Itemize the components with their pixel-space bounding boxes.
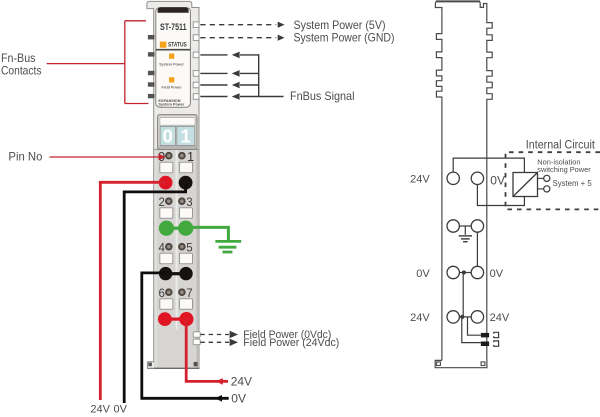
wire terminal B to converter xyxy=(477,185,524,206)
black field 0V wire xyxy=(142,273,229,398)
wire terminal 3 (green) xyxy=(178,221,193,236)
field power tab 24V xyxy=(193,339,200,345)
junction dot row3 xyxy=(462,270,466,274)
panel dark header xyxy=(158,7,189,13)
svg-text:Field Power (24Vdc): Field Power (24Vdc) xyxy=(243,337,339,349)
pin dot 6 xyxy=(165,288,173,296)
terminal slot 3 xyxy=(180,208,193,218)
terminal slot 1 xyxy=(180,162,193,172)
FnBus signal line 2 xyxy=(200,72,227,74)
drop wire to field contact 2 xyxy=(462,319,481,343)
terminal circle G (24V) xyxy=(447,311,459,323)
right edge slot 5 xyxy=(193,82,199,88)
Field Power LED square xyxy=(169,77,174,82)
terminal circle D xyxy=(471,220,483,232)
svg-text:24V: 24V xyxy=(90,403,110,415)
wire terminal 1 (black) xyxy=(179,176,193,190)
address digit 1 xyxy=(177,126,195,145)
svg-text:switching Power: switching Power xyxy=(537,165,591,174)
black jumper bar xyxy=(166,272,186,275)
FnBus contact 4 xyxy=(148,82,155,86)
svg-text:Pin No: Pin No xyxy=(8,150,42,164)
mating contact 2 xyxy=(494,341,499,346)
svg-text:24V: 24V xyxy=(410,174,430,186)
Field Power 0Vdc dashed arrow xyxy=(200,334,229,336)
svg-text:Internal Circuit: Internal Circuit xyxy=(526,139,596,151)
FnBus signal line 3 xyxy=(200,84,227,86)
FnBus contact 5 xyxy=(148,94,155,98)
pin dot 3 xyxy=(178,197,186,205)
System Power GND dashed arrow xyxy=(200,37,276,39)
green earth wire xyxy=(186,227,229,240)
FnBus contact 3 xyxy=(148,71,155,75)
terminal circle H (24V) xyxy=(471,311,483,323)
wire terminal 4 (black) xyxy=(159,267,172,280)
svg-text:3: 3 xyxy=(186,197,192,209)
terminal slot 0 xyxy=(160,162,173,172)
svg-text:24V: 24V xyxy=(231,375,252,389)
right edge slot 4 xyxy=(193,71,199,77)
svg-text:0: 0 xyxy=(163,126,173,147)
pin dot 4 xyxy=(165,243,173,251)
wire terminal 6 (red) xyxy=(158,312,172,326)
panel separator line xyxy=(156,49,190,51)
FnBus bus bar xyxy=(258,54,260,97)
terminal strip background xyxy=(154,149,198,367)
FnBus signal line 4 xyxy=(200,96,227,98)
wire terminal C-D with earth xyxy=(459,225,472,227)
red jumper bar xyxy=(166,318,187,321)
wire row3 with junction xyxy=(459,272,471,274)
svg-text:Contacts: Contacts xyxy=(1,63,42,77)
svg-text:6: 6 xyxy=(158,288,164,300)
svg-text:0V: 0V xyxy=(416,268,430,280)
terminal circle E (0V) xyxy=(447,266,459,278)
internal circuit dashed box xyxy=(506,152,600,209)
svg-text:24V: 24V xyxy=(410,312,430,324)
pin dot 0 xyxy=(165,152,173,160)
pin dot 5 xyxy=(178,243,186,251)
Pin No arrow (red) xyxy=(50,156,160,158)
svg-text:1: 1 xyxy=(187,149,194,164)
svg-text:ST-7511: ST-7511 xyxy=(160,22,187,32)
field contact 1 (black) xyxy=(481,333,489,338)
side profile outline xyxy=(435,1,492,367)
green jumper bar xyxy=(166,227,186,230)
right edge slot 3 xyxy=(193,52,199,58)
svg-text:STATUS: STATUS xyxy=(168,42,187,48)
wire terminal 2 (green) xyxy=(159,221,174,236)
pin dot 1 xyxy=(178,152,186,160)
svg-text:0V: 0V xyxy=(490,174,505,188)
pin dot 7 xyxy=(178,288,186,296)
right edge slot 2 xyxy=(193,35,199,41)
svg-text:FnBus Signal: FnBus Signal xyxy=(290,89,355,103)
svg-text:System Power: System Power xyxy=(159,62,184,66)
converter output pins xyxy=(538,177,544,179)
STATUS LED square xyxy=(160,42,167,48)
svg-text:System Power: System Power xyxy=(158,103,184,107)
svg-text:Field Power: Field Power xyxy=(162,86,183,90)
profile foot marks xyxy=(437,362,441,366)
svg-text:7: 7 xyxy=(186,288,192,300)
right edge slot 1 xyxy=(193,22,199,28)
wire D to E row xyxy=(476,232,478,266)
svg-text:0V: 0V xyxy=(113,403,127,415)
terminal slot 4 xyxy=(160,253,173,263)
red 24V supply wire xyxy=(100,182,165,400)
svg-text:0V: 0V xyxy=(490,268,504,280)
red field 24V wire xyxy=(186,319,228,381)
right edge slot 6 xyxy=(193,94,199,100)
svg-text:0V: 0V xyxy=(231,391,246,405)
System Power LED square xyxy=(169,54,174,59)
field power tab 0V xyxy=(193,332,200,338)
wire terminal 7 (red) xyxy=(179,312,193,326)
svg-text:System + 5: System + 5 xyxy=(553,179,593,188)
module left foot xyxy=(147,362,154,369)
FnBus contact 1 (left edge) xyxy=(148,35,155,39)
Fn-Bus bracket (red) xyxy=(47,21,149,104)
svg-text:2: 2 xyxy=(158,197,164,209)
module right foot mark xyxy=(194,362,198,366)
System Power 5V dashed arrow xyxy=(200,24,276,26)
field contact 2 (black) xyxy=(481,342,489,347)
terminal circle F (0V) xyxy=(471,266,483,278)
Field Power 24Vdc dashed arrow xyxy=(200,341,229,343)
svg-text:4: 4 xyxy=(158,243,165,255)
junction dot row4 xyxy=(460,315,464,319)
terminal slot 7 xyxy=(180,299,193,309)
mating contact 1 xyxy=(494,332,499,337)
address display unit xyxy=(158,115,197,150)
earth ground symbol xyxy=(215,240,241,243)
FnBus contact 2 xyxy=(148,52,155,56)
svg-text:System Power (GND): System Power (GND) xyxy=(294,31,395,45)
address digit 0 xyxy=(160,126,175,145)
terminal circle B (0V) xyxy=(471,172,483,184)
pin dot 2 xyxy=(165,197,173,205)
module faceplate panel xyxy=(156,8,191,108)
wire terminal 5 (black) xyxy=(179,267,192,280)
svg-text:1: 1 xyxy=(181,126,191,147)
terminal circle A (24V) xyxy=(447,172,459,184)
svg-text:5: 5 xyxy=(186,243,192,255)
terminal slot 5 xyxy=(180,253,193,263)
terminal circle C xyxy=(447,220,459,232)
terminal slot 6 xyxy=(160,299,173,309)
drop wire to field contact 1 xyxy=(468,317,481,335)
terminal slot 2 xyxy=(160,208,173,218)
black 0V supply wire xyxy=(124,184,185,403)
wire row4 xyxy=(459,316,471,318)
module ST-7511 casing xyxy=(147,1,199,368)
switching power converter box xyxy=(513,173,538,197)
wire row3 to row4 xyxy=(462,273,464,317)
svg-text:24V: 24V xyxy=(490,312,510,324)
wire terminal 0 (red) xyxy=(159,176,173,190)
earth symbol (right diagram) xyxy=(459,235,472,237)
FnBus signal line 1 xyxy=(200,54,227,56)
wire terminal A to converter xyxy=(453,158,524,172)
